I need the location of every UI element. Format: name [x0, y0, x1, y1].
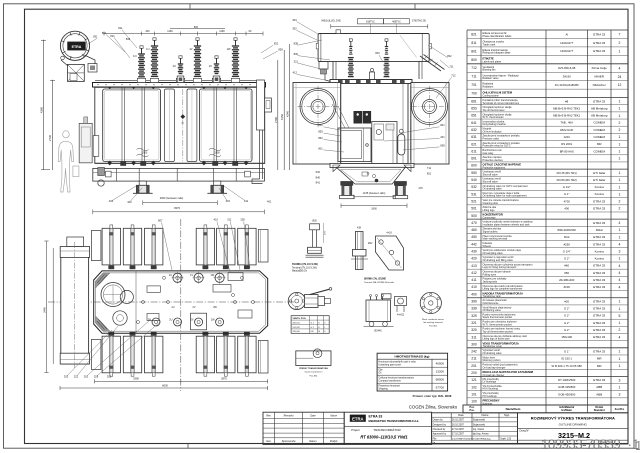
plan left dims [46, 241, 48, 373]
svg-text:532: 532 [316, 170, 321, 174]
svg-text:G 2": G 2" [564, 314, 570, 318]
buchholz box front [88, 64, 97, 73]
svg-text:Lugs for fixing during transpo: Lugs for fixing during transport [483, 266, 517, 269]
svg-text:SKRINA ZALUZIJNE: SKRINA ZALUZIJNE [364, 277, 386, 280]
detail: bushing section [351, 227, 373, 270]
svg-text:8070: 8070 [174, 206, 180, 210]
svg-text:Lifting lugs: Lifting lugs [483, 209, 496, 212]
svg-text:413: 413 [471, 264, 477, 268]
svg-text:ID 190 1: ID 190 1 [561, 357, 572, 361]
side HV bushing A [348, 57, 354, 59]
svg-text:420: 420 [471, 257, 477, 261]
svg-text:1: 1 [619, 257, 621, 261]
svg-text:460: 460 [471, 228, 477, 232]
mass table [377, 353, 448, 391]
svg-text:AB Metalurg: AB Metalurg [591, 114, 608, 118]
svg-text:DN 25 (RU 501): DN 25 (RU 501) [557, 171, 577, 175]
svg-text:Ø2445: Ø2445 [374, 330, 382, 333]
oil filter cabinet on tank left [79, 123, 92, 162]
svg-text:390: 390 [471, 300, 477, 304]
svg-text:1: 1 [619, 135, 621, 139]
plan view group [42, 217, 295, 391]
svg-text:Shut-off valve: Shut-off valve [483, 173, 499, 176]
svg-text:Phase identification labels: Phase identification labels [483, 35, 513, 38]
svg-text:Matica(Ø8) Oz: Matica(Ø8) Oz [292, 270, 308, 273]
svg-text:Pressure valve: Pressure valve [483, 138, 500, 141]
svg-text:438: 438 [357, 227, 362, 230]
svg-text:101: 101 [471, 392, 477, 396]
svg-text:1: 1 [619, 114, 621, 118]
svg-text:Terminal ZALUZIJNE Wm bolts: Terminal ZALUZIJNE Wm bolts [364, 281, 395, 284]
bushing 1N [138, 46, 145, 77]
svg-text:1: 1 [619, 185, 621, 189]
svg-text:Protect. color typ: RAL 9008: Protect. color typ: RAL 9008 [413, 394, 452, 398]
svg-text:Cooling system: Cooling system [483, 94, 499, 97]
svg-text:410: 410 [214, 217, 219, 221]
svg-text:Oil level indicator: Oil level indicator [483, 130, 502, 133]
right fan [412, 89, 448, 125]
svg-text:Drawn by: Drawn by [433, 419, 444, 422]
svg-text:408TVC: 408TVC [392, 21, 401, 24]
front tank body [95, 87, 265, 163]
parts list table content [471, 32, 621, 405]
svg-text:851: 851 [318, 123, 323, 127]
svg-text:Approved by: Approved by [433, 433, 447, 436]
svg-text:120AN177: 120AN177 [560, 41, 574, 45]
svg-text:2U: 2U [171, 306, 174, 309]
big radiator panels front [103, 89, 161, 162]
svg-text:Motorovy pohon: Motorovy pohon [483, 359, 502, 362]
svg-text:Oil draining and filling valve: Oil draining and filling valve [483, 259, 514, 262]
right tank pipe [410, 86, 412, 160]
svg-text:531: 531 [471, 192, 477, 196]
svg-text:831: 831 [93, 35, 98, 39]
svg-text:801: 801 [318, 146, 323, 150]
svg-text:DT 10M/V500: DT 10M/V500 [558, 378, 576, 382]
svg-text:COMEM: COMEM [593, 121, 605, 125]
svg-text:811: 811 [471, 41, 476, 45]
text: svorka terminal [292, 263, 318, 273]
plan radiator strips bottom [102, 336, 120, 373]
svg-text:1: 1 [619, 385, 621, 389]
svg-text:Designed by: Designed by [433, 423, 447, 426]
svg-text:100: 100 [471, 400, 477, 404]
svg-text:500: 500 [471, 214, 477, 218]
svg-text:ETRA 33: ETRA 33 [593, 335, 605, 339]
svg-text:109933-78339: 109933-78339 [541, 437, 620, 452]
left bottom jack [98, 168, 105, 176]
svg-text:Stojanovski: Stojanovski [473, 419, 486, 422]
bushing 2V [213, 56, 220, 83]
svg-text:501: 501 [471, 207, 477, 211]
center LV box [191, 313, 207, 330]
left fan [300, 89, 336, 125]
svg-text:1: 1 [619, 364, 621, 368]
svg-text:COMEM: COMEM [593, 149, 605, 153]
svg-text:ETRA: ETRA [72, 45, 82, 49]
svg-text:Terminals of current transform: Terminals of current transformers [483, 102, 520, 105]
svg-text:Insulation plates between whee: Insulation plates between wheels and tan… [483, 223, 531, 226]
plan radiator strips top [102, 228, 120, 265]
svg-text:Sprememba: Sprememba [282, 440, 296, 443]
svg-text:MB B+E B-RA2 TEK1: MB B+E B-RA2 TEK1 [553, 106, 581, 110]
svg-text:1: 1 [619, 99, 621, 103]
svg-text:211: 211 [471, 357, 476, 361]
svg-text:1900: 1900 [214, 151, 220, 154]
svg-text:ROZMEROVÝ VÝKRES TRANSFORMÁT: ROZMEROVÝ VÝKRES TRANSFORMÁTORA [531, 415, 615, 420]
svg-text:470: 470 [418, 186, 423, 190]
svg-text:412: 412 [293, 71, 298, 75]
svg-text:2730: 2730 [48, 135, 52, 141]
svg-text:COGEN Žilina, Slovensko: COGEN Žilina, Slovensko [409, 405, 458, 410]
svg-text:400: 400 [471, 292, 477, 296]
svg-text:200: 200 [471, 371, 477, 375]
svg-text:411: 411 [244, 199, 249, 203]
svg-text:470: 470 [471, 221, 477, 225]
front dims left [43, 40, 45, 170]
svg-text:Top oil thermometer: Top oil thermometer [483, 109, 505, 112]
svg-text:816TVC: 816TVC [366, 21, 375, 24]
svg-text:Kovina: Kovina [595, 249, 605, 253]
svg-text:Lifting lugs of active part: Lifting lugs of active part [483, 338, 510, 341]
plan tank outline [94, 271, 268, 333]
svg-text:HMOTNOSTI/MASS (kg): HMOTNOSTI/MASS (kg) [395, 355, 430, 359]
interior separator [135, 271, 137, 333]
svg-text:711: 711 [471, 75, 476, 79]
svg-text:2000 (between rails): 2000 (between rails) [160, 196, 184, 200]
svg-text:Pos.: Pos. [469, 409, 474, 412]
svg-text:ABB: ABB [596, 385, 602, 389]
bushing 1U [151, 38, 158, 77]
narrow middle panels front [165, 89, 175, 162]
svg-text:TAB , 46A: TAB , 46A [560, 121, 573, 125]
cover platform side [330, 80, 412, 84]
svg-text:Ø30: Ø30 [312, 221, 317, 223]
svg-text:201: 201 [471, 364, 477, 368]
svg-text:AB Metalurg: AB Metalurg [591, 106, 608, 110]
svg-text:801: 801 [471, 49, 477, 53]
svg-text:2U: 2U [173, 64, 176, 68]
svg-text:Main earthing terminal: Main earthing terminal [483, 238, 508, 241]
conservator legs [332, 61, 334, 79]
svg-text:27.10.2007: 27.10.2007 [452, 433, 465, 436]
svg-text:Oil draining valve: Oil draining valve [483, 188, 503, 191]
svg-text:631: 631 [471, 135, 477, 139]
gussets [333, 165, 340, 172]
svg-text:201: 201 [440, 135, 445, 139]
svg-text:2: 2 [619, 200, 621, 204]
svg-text:Lifting lugs for complete tran: Lifting lugs for complete transformer [483, 288, 523, 291]
svg-text:Untanking part+cover: Untanking part+cover [378, 364, 401, 367]
svg-text:840(2x3L)/OL.DN5: 840(2x3L)/OL.DN5 [321, 21, 341, 23]
cables diagonal [332, 104, 345, 128]
svg-text:27.10.2007: 27.10.2007 [452, 428, 465, 431]
svg-text:Name: Name [330, 414, 337, 417]
small equipment rects on cover [147, 286, 160, 292]
svg-text:Al: Al [565, 32, 568, 36]
svg-text:2: 2 [619, 121, 621, 125]
svg-text:Protective devices: Protective devices [483, 159, 504, 162]
conservator in plan (left overlay) [67, 237, 84, 247]
front dims right [277, 60, 279, 170]
svg-text:Radiator valve: Radiator valve [483, 77, 500, 80]
svg-text:Jacking pads: Jacking pads [483, 280, 498, 283]
svg-text:ETRA 33: ETRA 33 [593, 49, 605, 53]
break marks 1900 [137, 148, 149, 151]
base and skid [93, 168, 265, 181]
svg-text:4×M12: 4×M12 [397, 314, 405, 317]
svg-text:4: 4 [619, 242, 621, 246]
svg-text:#50: #50 [564, 271, 569, 275]
centering tick bottom [187, 444, 189, 449]
svg-text:Stojanovski: Stojanovski [473, 423, 486, 426]
svg-text:800x1000x500: 800x1000x500 [558, 228, 577, 232]
svg-text:2W: 2W [211, 318, 215, 321]
svg-text:Klima Celje: Klima Celje [592, 66, 608, 70]
panel mount diamonds [107, 84, 248, 165]
svg-text:1900: 1900 [142, 151, 148, 154]
buchholz & pipe left [319, 62, 328, 70]
svg-text:G 2": G 2" [564, 307, 570, 311]
svg-text:442: 442 [471, 242, 477, 246]
svg-text:621: 621 [471, 142, 477, 146]
cover bolt dots [97, 84, 258, 85]
svg-text:1: 1 [619, 142, 621, 146]
svg-text:4150: 4150 [280, 114, 284, 120]
svg-text:RS 2001: RS 2001 [561, 142, 572, 146]
svg-text:ETRA 33: ETRA 33 [369, 415, 383, 419]
svg-text:661: 661 [471, 99, 477, 103]
svg-text:Pulling eyes: Pulling eyes [483, 273, 497, 276]
svg-text:5: 5 [619, 314, 621, 318]
svg-text:FG 2100x24x80/80: FG 2100x24x80/80 [555, 83, 579, 87]
svg-text:Rev.: Rev. [266, 414, 271, 417]
plan centerline vertical [180, 219, 182, 391]
svg-text:Wheels: Wheels [483, 245, 492, 248]
svg-text:On-load tap changer: On-load tap changer [483, 374, 505, 377]
svg-text:321: 321 [294, 59, 299, 63]
svg-text:2U: 2U [169, 318, 172, 321]
svg-text:TRANSFORMÁTOR: TRANSFORMÁTOR [373, 428, 401, 432]
svg-text:G 1/4": G 1/4" [563, 249, 571, 253]
HV bushing circles plan (1U 1V 1W) [173, 273, 182, 282]
parts list header row [463, 405, 628, 413]
diagonal pipe top left [61, 60, 68, 66]
company block ETRA logo [344, 412, 431, 444]
oil sight glass [61, 56, 65, 60]
svg-text:AVS 800-6-08: AVS 800-6-08 [558, 66, 576, 70]
detail: mini transformer [364, 294, 394, 333]
svg-text:Oil: Oil [378, 372, 381, 375]
svg-text:1800: 1800 [371, 207, 377, 210]
svg-text:3: 3 [619, 393, 621, 397]
svg-text:1: 1 [619, 235, 621, 239]
svg-text:328: 328 [240, 217, 245, 221]
svg-text:821: 821 [110, 34, 115, 38]
svg-text:611: 611 [471, 149, 476, 153]
svg-text:Mont. osadenie otvoru: Mont. osadenie otvoru [422, 318, 444, 321]
svg-text:2: 2 [619, 328, 621, 332]
detail: flange bolt circle [420, 292, 444, 327]
svg-text:ETRA 33: ETRA 33 [593, 199, 605, 203]
svg-text:1: 1 [619, 171, 621, 175]
svg-text:COMEM: COMEM [593, 135, 605, 139]
svg-text:2N: 2N [148, 318, 151, 321]
bushing 1V [194, 38, 201, 77]
svg-text:MR: MR [597, 357, 602, 361]
svg-text:Compact transformer: Compact transformer [378, 380, 401, 383]
svg-text:302: 302 [292, 27, 297, 31]
centering tick top 2 [414, 4, 416, 9]
svg-text:Odvzdusnenie: Odvzdusnenie [483, 302, 500, 305]
svg-text:150x100: 150x100 [561, 335, 572, 339]
conservator cylinder [318, 34, 429, 62]
svg-text:701: 701 [471, 83, 477, 87]
svg-text:W B 400-1 75 10 05 380: W B 400-1 75 10 05 380 [552, 364, 583, 368]
svg-text:1W: 1W [210, 274, 214, 277]
svg-text:LV bushings: LV bushings [483, 381, 497, 384]
svg-text:ETRA 33: ETRA 33 [593, 299, 605, 303]
left radiator bank [293, 83, 341, 165]
svg-text:HV-N bushing: HV-N bushing [483, 388, 499, 391]
svg-text:Dehydrating breather: Dehydrating breather [483, 123, 507, 126]
svg-text:2780: 2780 [274, 117, 278, 123]
svg-text:318: 318 [107, 374, 112, 378]
svg-text:1V: 1V [189, 47, 192, 51]
tub fittings [362, 172, 368, 176]
svg-text:3390: 3390 [133, 377, 139, 381]
svg-text:1W: 1W [227, 47, 231, 51]
svg-text:ETRA 33: ETRA 33 [593, 321, 605, 325]
svg-text:1: 1 [619, 192, 621, 196]
svg-text:1: 1 [619, 49, 621, 53]
svg-text:400: 400 [145, 30, 150, 33]
svg-text:1V: 1V [190, 274, 193, 277]
wheels front [139, 181, 146, 185]
svg-text:ETRA 33: ETRA 33 [593, 32, 605, 36]
svg-text:On-load tap-changer: On-load tap-changer [483, 366, 506, 369]
svg-text:2V: 2V [191, 318, 194, 321]
svg-text:Transformer tank: Transformer tank [483, 295, 502, 298]
svg-text:401: 401 [267, 200, 272, 204]
svg-text:ETRA 33: ETRA 33 [593, 378, 605, 382]
svg-text:841: 841 [440, 123, 445, 127]
svg-text:G 2": G 2" [564, 257, 570, 261]
svg-text:26.10.2007: 26.10.2007 [452, 423, 465, 426]
svg-text:COMEM: COMEM [593, 128, 605, 132]
svg-text:2: 2 [619, 41, 621, 45]
svg-text:26.10.2007: 26.10.2007 [452, 419, 465, 422]
svg-text:1: 1 [619, 350, 621, 354]
svg-text:#60: #60 [564, 264, 569, 268]
svg-text:ETRA 33: ETRA 33 [593, 285, 605, 289]
svg-text:DN 80 (RU 502): DN 80 (RU 502) [557, 178, 577, 182]
svg-text:Blowing fan: Blowing fan [483, 69, 497, 72]
svg-text:W.T.I. thermometer: W.T.I. thermometer [483, 116, 504, 119]
cover turrets [137, 78, 145, 82]
svg-text:859: 859 [318, 130, 323, 134]
detail: terminal bolt [306, 221, 327, 258]
svg-text:Conservator: Conservator [483, 217, 496, 220]
svg-text:Checked by: Checked by [433, 428, 446, 431]
svg-text:dipl.ing. Arman: dipl.ing. Arman [473, 433, 489, 436]
svg-text:832: 832 [447, 54, 452, 58]
svg-text:4×18: 4×18 [386, 231, 392, 234]
svg-text:311: 311 [227, 217, 232, 221]
svg-text:841: 841 [316, 181, 321, 185]
svg-text:HV bushings: HV bushings [483, 395, 498, 398]
svg-text:651: 651 [471, 114, 477, 118]
svg-text:6630: 6630 [162, 383, 168, 387]
svg-text:521: 521 [471, 199, 477, 203]
svg-text:File: File [433, 437, 438, 440]
detail: top-right small bolt [0, 0, 1, 1]
svg-text:MR: MR [597, 142, 602, 146]
svg-text:532,242: 532,242 [293, 327, 301, 329]
svg-text:Transformer cover: Transformer cover [483, 345, 503, 348]
svg-text:Name: Name [482, 413, 489, 417]
detail: gland [395, 297, 407, 317]
svg-text:712: 712 [451, 74, 456, 78]
svg-text:Project: Project [351, 428, 360, 432]
svg-text:Kovina: Kovina [595, 257, 605, 261]
svg-text:430: 430 [471, 250, 477, 254]
svg-text:GOB 325/800: GOB 325/800 [558, 385, 576, 389]
svg-text:7: 7 [619, 33, 621, 37]
base posts [116, 168, 118, 181]
svg-text:Kovina: Kovina [595, 185, 605, 189]
svg-text:300: 300 [471, 342, 477, 346]
svg-text:3: 3 [619, 378, 621, 382]
svg-text:4: 4 [619, 285, 621, 289]
svg-text:ABB: ABB [596, 392, 602, 396]
center mark [182, 89, 184, 162]
svg-text:Shut-off valve: Shut-off valve [483, 180, 499, 183]
svg-text:Ø42: Ø42 [368, 243, 373, 245]
svg-text:329: 329 [471, 314, 477, 318]
svg-text:831: 831 [427, 171, 432, 175]
svg-text:1: 1 [619, 157, 621, 161]
svg-text:411: 411 [471, 278, 476, 282]
svg-text:838: 838 [278, 48, 283, 52]
svg-text:641: 641 [471, 121, 477, 125]
svg-text:4: 4 [619, 271, 621, 275]
svg-text:1U: 1U [146, 47, 149, 51]
svg-text:2870: 2870 [221, 377, 227, 381]
svg-text:Protective equipment: Protective equipment [483, 167, 506, 170]
conservator support [68, 64, 85, 81]
title block drawn-by table [432, 413, 518, 444]
title block name and number [518, 413, 629, 444]
control cabinet [338, 128, 371, 162]
side tank [336, 84, 408, 164]
jack pad squares [106, 171, 112, 177]
plan centerline horizontal [48, 301, 295, 303]
svg-text:Naziv/Item: Naziv/Item [506, 407, 521, 411]
svg-text:MR: MR [597, 364, 602, 368]
svg-text:4: 4 [619, 264, 621, 268]
svg-text:Date: Date [310, 414, 316, 417]
svg-text:LB22 HOK: LB22 HOK [560, 128, 574, 132]
side HV bushing B [384, 57, 390, 59]
svg-text:120AN177: 120AN177 [560, 49, 574, 53]
svg-text:4: 4 [619, 66, 621, 70]
svg-text:Izv/Mater: Izv/Mater [561, 409, 572, 412]
svg-text:Terminal (7N,1U,1V,1W): Terminal (7N,1U,1V,1W) [292, 266, 317, 269]
left wall column [93, 136, 99, 157]
svg-text:RT 63000–110/10,5 YNd1: RT 63000–110/10,5 YNd1 [360, 435, 408, 440]
svg-text:Top oil thermometer pocket: Top oil thermometer pocket [483, 331, 513, 334]
